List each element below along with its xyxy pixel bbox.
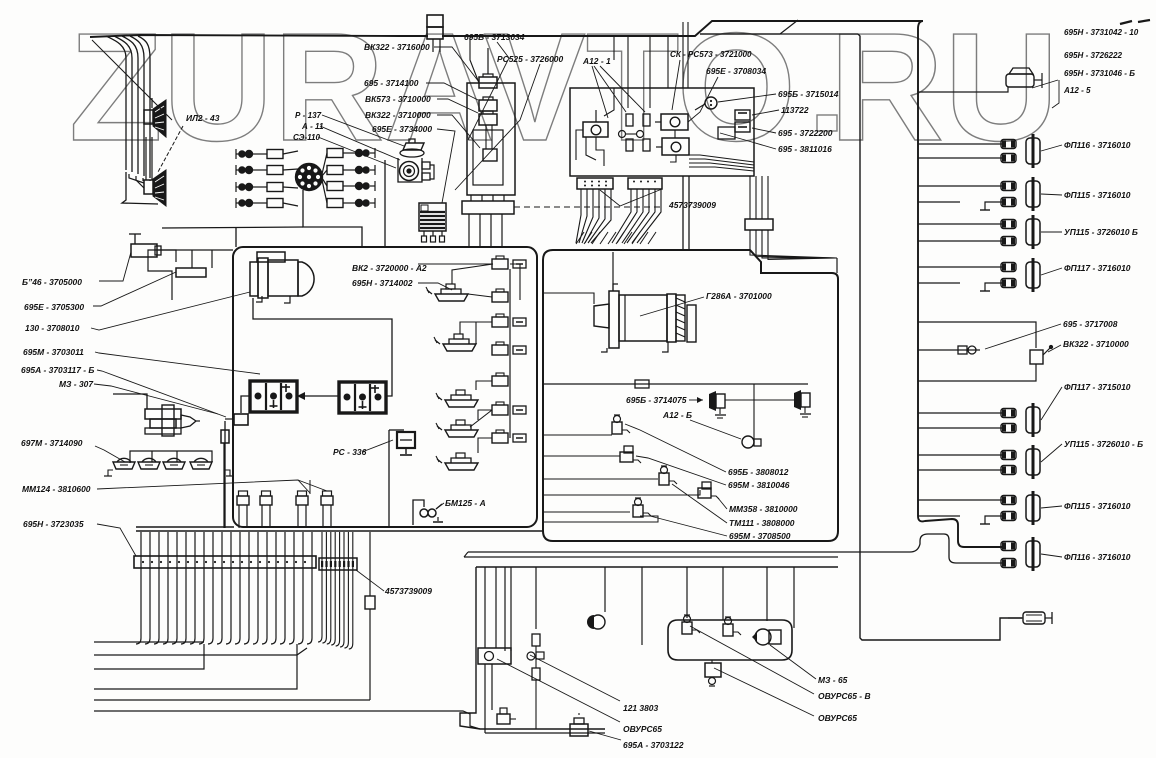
svg-text:ФП116 - 3716010: ФП116 - 3716010 (1064, 140, 1131, 150)
flame plug sensor 4 (321, 491, 333, 526)
wires: strips down into box2 (576, 189, 661, 243)
valve bottom-left (497, 708, 516, 724)
box: chassis unit outline (543, 250, 838, 541)
label 695М-3708500 (729, 531, 791, 541)
fuses center pair bottom (626, 139, 650, 151)
label 695Е-3734000 (372, 124, 432, 134)
fan-out lines bottom left (94, 642, 480, 729)
dome lamp ПД4 (190, 458, 212, 469)
leader ММ124 long (97, 480, 327, 493)
fuse block inner rect (473, 125, 503, 185)
tail lamp 6 body (1026, 445, 1040, 479)
switch ВК322 right (1030, 345, 1053, 364)
label МЗ-307 (59, 379, 94, 389)
label lamp5 (1064, 382, 1131, 392)
svg-text:УП115 - 3726010 Б: УП115 - 3726010 Б (1064, 227, 1138, 237)
label lamp2 (1064, 190, 1131, 200)
spark plug left 1 (239, 150, 298, 159)
wire: pair verticals to box2 top (683, 176, 689, 250)
label 697М-3714090 (21, 438, 83, 448)
label speaker leader (92, 40, 183, 172)
wire: coil drop (384, 160, 386, 247)
label 4573739009 (upper) (668, 200, 716, 210)
svg-text:113722: 113722 (781, 105, 809, 115)
svg-text:МЗ - 307: МЗ - 307 (59, 379, 94, 389)
tail lamp 1 feeds (918, 144, 1003, 158)
leader generator (640, 297, 704, 316)
sensor ММ358 (659, 466, 677, 485)
wires: into fuse top (470, 36, 488, 83)
svg-text:А12 - 5: А12 - 5 (1063, 86, 1091, 95)
tail lamp 4 connectors (1001, 263, 1016, 288)
device БМ125-А (420, 504, 443, 522)
sensor 695М-3708500 (633, 498, 651, 517)
connector strip under fuse block (462, 201, 514, 214)
device 4573739009 (lower) (365, 532, 375, 700)
label 695А-3703117-Б (21, 365, 94, 375)
device fuel gauge unit (478, 648, 511, 733)
spark plug right 3 (322, 178, 375, 191)
label ММ358-3810000 (729, 504, 798, 514)
label 695Н-3726222 (1064, 51, 1123, 60)
leader: coil labels (318, 115, 404, 168)
svg-text:695Н - 3723035: 695Н - 3723035 (23, 519, 84, 529)
tail lamp 1 body (1026, 134, 1040, 168)
label 695М-3703011 (23, 347, 84, 357)
wire: horn link (725, 384, 794, 441)
label ММ124-3810600 (22, 484, 91, 494)
leader 695Н-3723035 (97, 524, 136, 556)
label БМ125-А (445, 498, 486, 508)
svg-text:ВК2 - 3720000 - А2: ВК2 - 3720000 - А2 (352, 263, 427, 273)
svg-text:695А - 3703122: 695А - 3703122 (623, 740, 684, 750)
relay cluster box (570, 88, 754, 176)
leader lamp8 (1041, 554, 1062, 557)
label lamp3 (1064, 227, 1138, 237)
svg-text:ФП115 - 3716010: ФП115 - 3716010 (1064, 190, 1131, 200)
svg-text:ФП115 - 3716010: ФП115 - 3716010 (1064, 501, 1131, 511)
connector battery cable (225, 396, 250, 425)
leader lines left labels (91, 252, 260, 417)
page corner mark (1120, 20, 1150, 24)
relay РС1 (576, 110, 608, 160)
distributor Р137 (296, 164, 323, 191)
valve 1 in box (682, 615, 700, 634)
label Р-137 (295, 111, 322, 120)
label Б46-3705000 (22, 277, 82, 287)
leader lamp7 (1041, 506, 1062, 508)
wire: horn feed line (543, 380, 808, 388)
svg-text:695А - 3703117 - Б: 695А - 3703117 - Б (21, 365, 94, 375)
label А12-5 (1063, 86, 1091, 95)
svg-text:ВК322 - 3716000: ВК322 - 3716000 (364, 42, 430, 52)
battery GB1 6СТ (250, 381, 297, 412)
valve stem below box (709, 660, 716, 686)
label 695Н-3723035 (23, 519, 84, 529)
motor МЗ-307 (113, 394, 200, 436)
tail lamp 2 body (1026, 177, 1040, 211)
svg-text:СЭ-110: СЭ-110 (293, 133, 321, 142)
watermark ZURAVTO.RU (69, 1, 1059, 173)
svg-text:БМ125 - А: БМ125 - А (445, 498, 486, 508)
label ВК2-3720000-А2 (352, 263, 427, 273)
wires: relay cluster right exits (689, 155, 754, 171)
horn Horn1 (709, 391, 726, 418)
leaders top-left stack (426, 47, 480, 203)
tail lamp 6 feeds (918, 455, 1003, 470)
wire: x837 drop to box2 right (836, 258, 838, 273)
connector 695А-3703122 (570, 714, 588, 736)
label 695Б-3714075 (626, 395, 687, 405)
label 695Е-3708034 (706, 66, 766, 76)
device right bottom cylinder (1008, 612, 1052, 624)
tail lamp 7 feeds (918, 500, 1003, 524)
svg-text:695Б - 3715014: 695Б - 3715014 (778, 89, 839, 99)
label ВК322-3710000 r (1063, 339, 1129, 349)
fuse on wire to bus (221, 421, 229, 528)
label 695-3722200 (778, 128, 833, 138)
box: bottom frame section (460, 552, 838, 729)
fuse item FI3 (513, 346, 526, 354)
svg-text:А12 - Б: А12 - Б (662, 410, 692, 420)
speaker S1 (144, 100, 166, 137)
fuse item FI5 (513, 434, 526, 442)
fuse block column (467, 83, 515, 195)
spark plug left 4 (239, 199, 298, 208)
svg-text:ОВУРС65: ОВУРС65 (623, 724, 662, 734)
label 121 3803 (623, 703, 658, 713)
connector X1 on top line (427, 15, 443, 52)
sensor 695М-3810046 (620, 446, 641, 463)
svg-text:УП115 - 3726010 - Б: УП115 - 3726010 - Б (1064, 439, 1143, 449)
ignition coil Б-?? (398, 139, 434, 182)
switch SW3 (436, 390, 478, 407)
svg-text:697М - 3714090: 697М - 3714090 (21, 438, 83, 448)
label МЗ-65 (818, 675, 848, 685)
wires: box1 top feeds (418, 264, 520, 300)
label lamp4 (1064, 263, 1131, 273)
label 695-3714100 (364, 78, 419, 88)
label РС525-3726000 (497, 54, 563, 64)
label 695Б-3715014 (778, 89, 839, 99)
svg-text:130 - 3708010: 130 - 3708010 (25, 323, 80, 333)
leaders 3717008 (985, 324, 1061, 352)
spark plug left 2 (239, 166, 298, 175)
svg-text:ОВУРС65 - В: ОВУРС65 - В (818, 691, 871, 701)
valve 2 in box (723, 617, 741, 636)
spark plug right 2 (322, 165, 375, 176)
svg-text:695 - 3811016: 695 - 3811016 (778, 144, 832, 154)
svg-text:695М - 3708500: 695М - 3708500 (729, 531, 791, 541)
svg-text:ФП117 - 3715010: ФП117 - 3715010 (1064, 382, 1131, 392)
wire: horn relay to box1 steps (148, 250, 233, 300)
label 130-3708010 (25, 323, 80, 333)
fuses center pair top (626, 114, 650, 126)
svg-text:ВК322 - 3710000: ВК322 - 3710000 (365, 110, 431, 120)
leader lamp4 (1041, 268, 1062, 275)
speaker S2 (144, 170, 166, 206)
label СК-РС573-3721000 (670, 50, 752, 59)
wire: 5-wire drop from top harness (106, 36, 158, 204)
svg-text:ФП117 - 3716010: ФП117 - 3716010 (1064, 263, 1131, 273)
wires: box2 left stubs (543, 435, 700, 522)
svg-text:695Е - 3734000: 695Е - 3734000 (372, 124, 432, 134)
voltage regulator РР (419, 203, 446, 242)
switch SW5 (436, 453, 478, 470)
mini bundle connector strip (319, 558, 357, 570)
leader V to 4573739009 (600, 189, 662, 206)
label 695А-3703122 (623, 740, 684, 750)
svg-text:695Е - 3708034: 695Е - 3708034 (706, 66, 766, 76)
leader 3714075 (689, 397, 703, 403)
tail lamp 5 body (1026, 403, 1040, 437)
bundle connector strip (134, 556, 316, 568)
label 695Б-3713034 (464, 32, 525, 42)
sensor ТМ111 (698, 482, 719, 499)
branch 695-3717008 (918, 322, 1036, 381)
top right marker lamp А12-5 (918, 68, 1042, 92)
switch SW2 (434, 334, 476, 351)
wires: candle drops to bus (224, 443, 331, 528)
motor МЗ-65 (752, 629, 781, 645)
wire: БМ125 bracket (413, 500, 424, 525)
dome lamp ПД3 (163, 458, 185, 469)
box: cab equipment outline (233, 247, 537, 527)
starter СТ130 (250, 252, 314, 303)
leader А12Б (690, 420, 741, 439)
big bundle wires (136, 532, 312, 644)
label lamp1 (1064, 140, 1131, 150)
flame plug sensor 2 (260, 491, 272, 526)
label 695М-3810046 (728, 480, 790, 490)
label А-11 (301, 122, 324, 131)
leaders box2 sensors (625, 424, 727, 536)
label 695-3717008 (1063, 319, 1118, 329)
label 695Н-3731046-Б (1064, 69, 1135, 78)
wire: battery link arrow (297, 392, 339, 400)
connector strip B (right) (628, 178, 662, 189)
fuse F3 (479, 111, 497, 125)
svg-text:ВК322 - 3710000: ВК322 - 3710000 (1063, 339, 1129, 349)
label А12-1 (582, 56, 611, 66)
fuse item FI1 (513, 260, 526, 268)
fuse holder FH6 (492, 402, 508, 415)
fuse holder FH3 (492, 314, 508, 327)
label ИЛ2-43 (186, 113, 220, 123)
wire: lower return pair (464, 534, 1003, 563)
wire: distributor to coil (303, 190, 362, 247)
fuse holder FH4 (492, 342, 508, 355)
tail lamp 4 body (1026, 258, 1040, 292)
sensor 695Б-3808012 (612, 415, 630, 434)
tail lamp 8 feeds (0, 0, 1, 1)
horn Horn2 (794, 390, 811, 417)
svg-text:СК - РС573 - 3721000: СК - РС573 - 3721000 (670, 50, 752, 59)
svg-text:ИЛ2 - 43: ИЛ2 - 43 (186, 113, 220, 123)
tail lamp 3 feeds (918, 224, 1003, 241)
wire: plug harness left T-bar (236, 149, 240, 208)
flame plug sensor 3 (296, 491, 308, 526)
fuse F2 (479, 97, 497, 111)
tail lamp 4 feeds (918, 267, 1003, 291)
dome lamp ПД1 (113, 458, 135, 469)
spark plug right 1 (322, 148, 375, 174)
label lamp6 (1064, 439, 1143, 449)
svg-text:695Н - 3731046 - Б: 695Н - 3731046 - Б (1064, 69, 1135, 78)
label ВК573-3710000 (365, 94, 431, 104)
fuse pair on x536 (527, 634, 544, 729)
svg-text:695Н - 3714002: 695Н - 3714002 (352, 278, 413, 288)
label ОВУРС65 l (623, 724, 662, 734)
svg-text:ММ124 - 3810600: ММ124 - 3810600 (22, 484, 91, 494)
component 113722 fuses (718, 110, 750, 139)
leader ВК2 (418, 283, 452, 290)
label 695Е-3705300 (24, 302, 84, 312)
headlamp dark (587, 612, 605, 729)
leader 697М (95, 446, 125, 462)
leaders from top labels (592, 60, 718, 122)
wire: long right vertical (to bottom right) (858, 34, 1022, 640)
leader lamp3 (1041, 231, 1062, 233)
svg-text:РС - 336: РС - 336 (333, 447, 367, 457)
label А12-Б (662, 410, 692, 420)
fuse holder FH5 (492, 373, 508, 386)
wire: top main harness line (90, 21, 923, 37)
switch SW1 (426, 284, 468, 301)
leader lamp2 (1041, 194, 1062, 195)
svg-text:Б”46 - 3705000: Б”46 - 3705000 (22, 277, 82, 287)
resistor 695Е-3705300 (176, 268, 206, 277)
label lamp7 (1064, 501, 1131, 511)
svg-text:695 - 3717008: 695 - 3717008 (1063, 319, 1118, 329)
horn button circle (695, 97, 717, 110)
svg-text:ОВУРС65: ОВУРС65 (818, 713, 857, 723)
leaders bottom labels (497, 626, 816, 740)
leader lamp6 (1041, 444, 1062, 462)
label 695-3811016 (778, 144, 832, 154)
wire: upper right horizontal into right vertical (700, 33, 858, 35)
tail lamp 3 body (1026, 215, 1040, 249)
mini bundle wires (318, 532, 353, 649)
tail lamp 7 connectors (1001, 496, 1016, 521)
fuse F1 (479, 74, 497, 88)
wires: fuse block drop (469, 195, 504, 247)
wire: gen left feed (543, 293, 594, 304)
svg-text:695 - 3722200: 695 - 3722200 (778, 128, 833, 138)
tail lamp 7 body (1026, 491, 1040, 525)
wires bottom connects (485, 729, 605, 733)
label 695Н-3714002 (352, 278, 413, 288)
svg-text:695Е - 3705300: 695Е - 3705300 (24, 302, 84, 312)
leader top right labels (1032, 80, 1059, 108)
horn relay B46 (129, 234, 161, 257)
relay РС-336 (389, 430, 415, 527)
svg-text:121 3803: 121 3803 (623, 703, 658, 713)
tail lamp 2 connectors (1001, 182, 1016, 207)
svg-text:695Н - 3726222: 695Н - 3726222 (1064, 51, 1123, 60)
box: bottom right rounded (668, 620, 792, 660)
connector А12-Б circle (742, 436, 761, 448)
leaders 3713034 (455, 42, 540, 190)
relay РС2 (655, 114, 688, 130)
switch SW4 (436, 420, 478, 437)
leader lamp1 (1041, 145, 1062, 151)
valve below box (705, 663, 721, 677)
fuse item FI4 (513, 406, 526, 414)
svg-text:695Б - 3714075: 695Б - 3714075 (626, 395, 687, 405)
leaders right labels (718, 94, 779, 149)
svg-text:695Н - 3731042 - 10: 695Н - 3731042 - 10 (1064, 28, 1139, 37)
svg-text:ТМ111 - 3808000: ТМ111 - 3808000 (729, 518, 795, 528)
wire: horizontal dash join strip (514, 206, 660, 208)
label 695Б-3808012 (728, 467, 789, 477)
wire: lamp bus vertical (918, 21, 1003, 547)
svg-text:А12 - 1: А12 - 1 (582, 56, 611, 66)
svg-text:695М - 3810046: 695М - 3810046 (728, 480, 790, 490)
spark plug right 4 (322, 180, 375, 208)
label ОВУРС65 r (818, 713, 857, 723)
leader БМ125 (436, 503, 444, 509)
svg-text:ВК573 - 3710000: ВК573 - 3710000 (365, 94, 431, 104)
label ВК322-3716000 (364, 42, 430, 52)
connector circles (619, 131, 644, 138)
wire: starter to battery (253, 298, 392, 396)
leader lamp5 (1041, 387, 1062, 420)
tail lamp 5 feeds (918, 413, 1003, 428)
tail lamp 2 feeds (918, 186, 1003, 210)
fuse holder FH1 (492, 256, 508, 269)
lamp row frame (130, 451, 212, 463)
label Г286А-3701000 (706, 291, 772, 301)
wires: switch column (452, 264, 510, 453)
wire: second top line to right vertical (700, 20, 798, 34)
label 4573739009 (lower) (384, 586, 432, 596)
wires: bottom verticals (485, 567, 794, 651)
label 695Н-3731042-10 (1064, 28, 1139, 37)
label СЭ-110 (293, 133, 321, 142)
relay РС3 (656, 138, 689, 162)
dome lamp ПД2 (138, 458, 160, 469)
svg-text:ММ358 - 3810000: ММ358 - 3810000 (729, 504, 798, 514)
generator Г286А (594, 252, 696, 352)
leader 4573739009 lower (356, 570, 384, 591)
wires inside relay cluster (586, 22, 688, 166)
label 113722 (781, 105, 809, 115)
tail lamp 6 connectors (1001, 451, 1016, 475)
tail lamp 1 connectors (1001, 140, 1016, 163)
spark plug left 3 (239, 183, 298, 192)
label РС-336 (333, 447, 367, 457)
diagonal hatch bundle into box2 (576, 232, 656, 244)
svg-text:695М - 3703011: 695М - 3703011 (23, 347, 84, 357)
tail lamp 8 connectors (1001, 542, 1016, 568)
fuse holder FH7 (492, 430, 508, 443)
label ТМ111-3808000 (729, 518, 795, 528)
svg-text:695Б - 3713034: 695Б - 3713034 (464, 32, 525, 42)
connector strip A (left) (577, 178, 613, 189)
leader РС336 (362, 440, 393, 452)
battery GB2 6СТ (339, 382, 386, 413)
svg-text:4573739009: 4573739009 (384, 586, 432, 596)
svg-text:Г286А - 3701000: Г286А - 3701000 (706, 291, 772, 301)
tail lamp 3 connectors (1001, 220, 1016, 246)
svg-text:ФП116 - 3716010: ФП116 - 3716010 (1064, 552, 1131, 562)
svg-text:МЗ - 65: МЗ - 65 (818, 675, 848, 685)
fuse item FI2 (513, 318, 526, 326)
wire: lamp row ground bar (104, 470, 234, 476)
tail lamp 5 connectors (1001, 409, 1016, 433)
label ВК322-3710000 (365, 110, 431, 120)
